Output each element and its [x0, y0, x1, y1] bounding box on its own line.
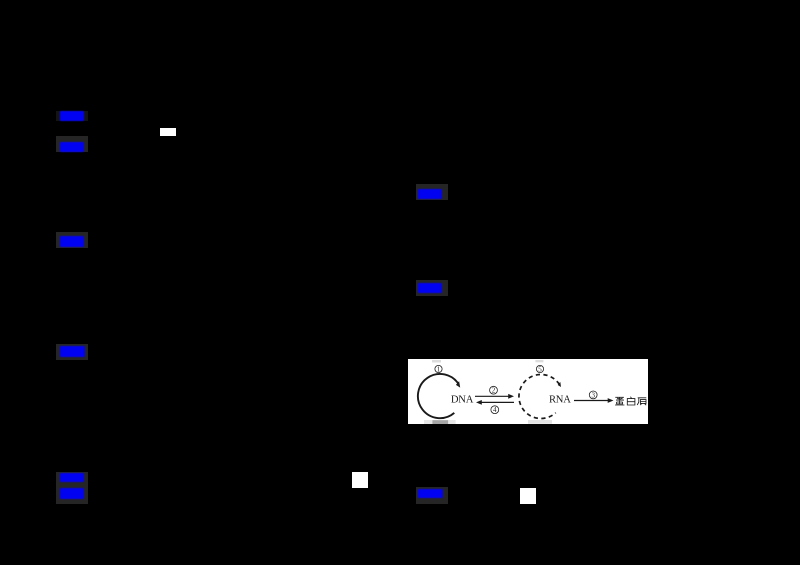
answer F blue	[60, 346, 85, 357]
answer highlight F frame	[56, 344, 88, 360]
answer highlight G frame (two-line)	[56, 472, 88, 504]
transcription arrow (2)	[475, 394, 514, 399]
label circled 2	[490, 386, 498, 394]
svg-text:2: 2	[492, 387, 496, 395]
DNA replication loop arrow	[418, 374, 460, 418]
reverse transcription arrow (4)	[476, 400, 514, 405]
white panel background	[408, 359, 648, 424]
svg-text:1: 1	[437, 365, 441, 373]
answer highlight E frame	[416, 280, 448, 296]
gray shading peek bottom-left dark	[432, 420, 448, 424]
answer highlight A frame	[56, 111, 88, 121]
RNA replication dashed loop	[519, 374, 561, 418]
answer highlight I frame	[416, 487, 448, 504]
label circled 4	[491, 406, 499, 414]
answer highlight D frame	[56, 232, 88, 248]
gray shading peek bottom-middle	[528, 420, 552, 424]
label circled 5	[536, 365, 543, 373]
svg-text:5: 5	[538, 365, 542, 373]
gray shading peek bottom-left light	[424, 420, 456, 424]
answer G blue line 1	[60, 473, 84, 482]
answer D blue	[60, 236, 84, 247]
gray shading peek top-left	[432, 360, 441, 363]
质	[637, 398, 646, 405]
白	[627, 397, 635, 405]
translation arrow (3)	[574, 398, 614, 403]
answer I blue	[418, 489, 443, 498]
answer B blue	[60, 142, 84, 152]
answer highlight C frame	[416, 184, 448, 200]
svg-text:4: 4	[493, 406, 497, 414]
svg-text:3: 3	[591, 391, 595, 399]
svg-text:RNA: RNA	[549, 395, 571, 406]
white inline image K	[160, 128, 176, 136]
answer G blue line 2	[60, 488, 84, 499]
white inline image J	[520, 488, 536, 504]
answer highlight B frame	[56, 136, 88, 152]
white inline image H	[352, 472, 368, 488]
蛋	[615, 397, 624, 400]
answer C blue	[418, 189, 442, 199]
central dogma diagram image (white panel)	[408, 359, 648, 424]
answer E blue	[418, 283, 442, 293]
answer A blue	[60, 111, 84, 121]
svg-text:DNA: DNA	[451, 395, 474, 406]
label circled 1	[435, 365, 442, 373]
gray shading peek top-middle	[535, 360, 543, 362]
label circled 3	[589, 391, 597, 399]
蛋白质 (protein) glyphs drawn as strokes	[615, 397, 646, 406]
